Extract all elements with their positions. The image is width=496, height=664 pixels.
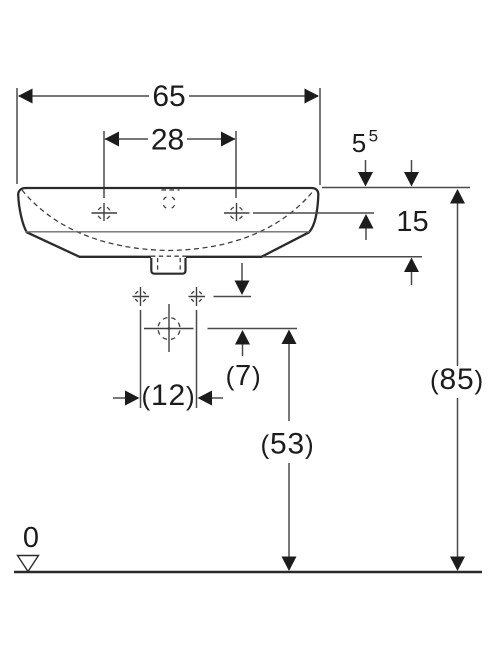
fixing hole left dashed circle (135, 291, 146, 302)
centre tap hole hidden edge (dashed) (162, 189, 180, 191)
dim 28 arrow right (221, 132, 236, 147)
dim 28 extension line left (103, 131, 105, 198)
tap hole left dashed circle (98, 207, 111, 220)
dim 28 dimension line (105, 138, 148, 140)
trap outlet stub (151, 258, 185, 274)
dim 12 right arrow (pointing left) (198, 391, 213, 406)
fixing holes reference line (214, 296, 252, 298)
tap hole left cross (92, 212, 118, 214)
dim 65 extension line right (319, 88, 321, 185)
bottom reference line (263, 256, 422, 258)
dim 85 bottom arrow (down) (450, 557, 465, 572)
dim 53 top arrow (up) (282, 330, 297, 345)
svg-text:5: 5 (352, 128, 366, 158)
datum triangle (18, 556, 39, 572)
dim 85 top arrow (up) (450, 189, 465, 204)
dim 5.5 upper arrow (down) (365, 160, 367, 174)
dim 12 extension line left (140, 310, 142, 408)
dim 7 upper arrow (down) (241, 263, 243, 282)
tap hole right cross (224, 212, 250, 214)
basin outline (18, 188, 318, 257)
drain dashed circle (158, 318, 180, 340)
dim 15 upper arrow (down) (411, 160, 413, 174)
svg-text:(53): (53) (261, 428, 315, 461)
dim 53 bottom arrow (down) (282, 557, 297, 572)
drain centre cross (144, 328, 194, 330)
svg-text:(85): (85) (430, 363, 484, 396)
svg-text:65: 65 (152, 80, 185, 113)
dim 15 lower arrow (up) (404, 258, 419, 273)
fixing hole left cross (133, 296, 150, 298)
dim 53 line upper (288, 344, 290, 421)
dim 28 arrow left (105, 132, 120, 147)
dim 12 left arrow (pointing right) (113, 397, 127, 399)
svg-text:0: 0 (23, 522, 39, 554)
dim 28 extension line right (235, 131, 237, 198)
dim 65 arrow right (305, 89, 320, 104)
basin bowl hidden edge (dashed) (22, 190, 314, 251)
fixing hole right dashed circle (191, 291, 202, 302)
dim 5.5 lower arrow (up) (359, 214, 374, 229)
bolt height line (208, 328, 298, 330)
dim 65 dimension line (19, 95, 149, 97)
fixing hole right cross (189, 296, 206, 298)
dim 65 extension line left (16, 88, 18, 184)
svg-text:(7): (7) (226, 360, 262, 392)
drain centre dot (168, 327, 171, 330)
svg-text:(12): (12) (142, 379, 196, 412)
top reference line (322, 187, 470, 189)
dim 7 lower arrow (up) (235, 330, 250, 345)
trap hidden top edge (dashed) (151, 255, 186, 257)
dim 65 arrow left (18, 89, 33, 104)
centre tap hole (dashed circle) (163, 196, 175, 208)
svg-text:5: 5 (369, 127, 378, 146)
dim 85 line upper (457, 204, 459, 367)
tap hole reference line (253, 212, 374, 214)
basin rim line (25, 231, 310, 233)
dim 85 line lower (457, 398, 459, 558)
tap hole right dashed circle (230, 207, 243, 220)
svg-text:15: 15 (396, 206, 428, 238)
dim 12 extension line right (196, 310, 198, 408)
svg-text:28: 28 (151, 124, 184, 157)
dim 53 line lower (288, 463, 290, 558)
floor line (14, 571, 482, 573)
trap inner dashed lines (157, 258, 159, 273)
